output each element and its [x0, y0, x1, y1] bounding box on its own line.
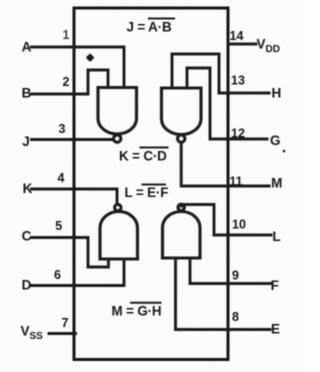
svg-text:H: H: [272, 86, 282, 101]
svg-text:6: 6: [54, 268, 61, 282]
svg-text:14: 14: [230, 29, 244, 43]
svg-text:K: K: [23, 181, 33, 196]
svg-text:4: 4: [58, 171, 65, 185]
svg-text:9: 9: [232, 269, 239, 283]
svg-text:B: B: [22, 86, 32, 101]
svg-text:2: 2: [63, 75, 70, 89]
svg-text:13: 13: [231, 74, 245, 88]
svg-text:11: 11: [229, 175, 242, 189]
svg-text:K = C·D: K = C·D: [119, 149, 167, 164]
svg-text:8: 8: [232, 310, 239, 324]
svg-text:J: J: [22, 134, 30, 149]
svg-text:12: 12: [231, 127, 245, 141]
svg-text:C: C: [22, 229, 32, 244]
svg-text:3: 3: [59, 122, 66, 136]
svg-text:10: 10: [232, 218, 246, 232]
svg-text:7: 7: [62, 316, 69, 330]
svg-text:L = E·F: L = E·F: [125, 185, 169, 200]
svg-text:A: A: [22, 40, 32, 55]
svg-text:L: L: [272, 229, 280, 244]
svg-text:D: D: [22, 278, 32, 293]
svg-text:J = A·B: J = A·B: [127, 20, 172, 35]
svg-text:1: 1: [63, 28, 70, 42]
svg-text:5: 5: [55, 219, 62, 233]
svg-text:M = G·H: M = G·H: [112, 304, 162, 319]
svg-text:F: F: [271, 278, 279, 293]
svg-text:E: E: [271, 322, 280, 337]
svg-text:M: M: [271, 176, 282, 191]
svg-text:G: G: [270, 133, 281, 148]
